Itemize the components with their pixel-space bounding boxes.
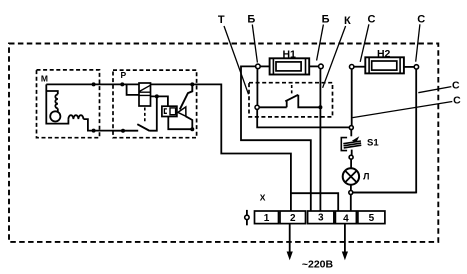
svg-text:С: С <box>417 14 425 26</box>
svg-text:Х: Х <box>260 192 266 202</box>
svg-text:Н2: Н2 <box>377 48 391 60</box>
svg-text:Б: Б <box>322 14 330 26</box>
svg-text:Б: Б <box>247 13 255 25</box>
svg-text:С: С <box>452 80 460 92</box>
svg-text:Т: Т <box>218 14 225 26</box>
svg-text:М: М <box>41 74 48 84</box>
svg-text:К: К <box>344 15 351 27</box>
svg-text:Р: Р <box>120 70 126 80</box>
svg-text:~220В: ~220В <box>302 258 334 270</box>
svg-text:С: С <box>453 95 461 107</box>
svg-text:С: С <box>368 13 376 25</box>
svg-text:4: 4 <box>343 213 349 224</box>
svg-text:S1: S1 <box>367 137 379 148</box>
svg-text:5: 5 <box>369 213 375 224</box>
svg-text:2: 2 <box>290 213 296 224</box>
svg-text:3: 3 <box>318 212 324 223</box>
svg-text:1: 1 <box>264 213 270 224</box>
svg-text:Н1: Н1 <box>282 49 296 61</box>
svg-text:Л: Л <box>363 172 369 182</box>
